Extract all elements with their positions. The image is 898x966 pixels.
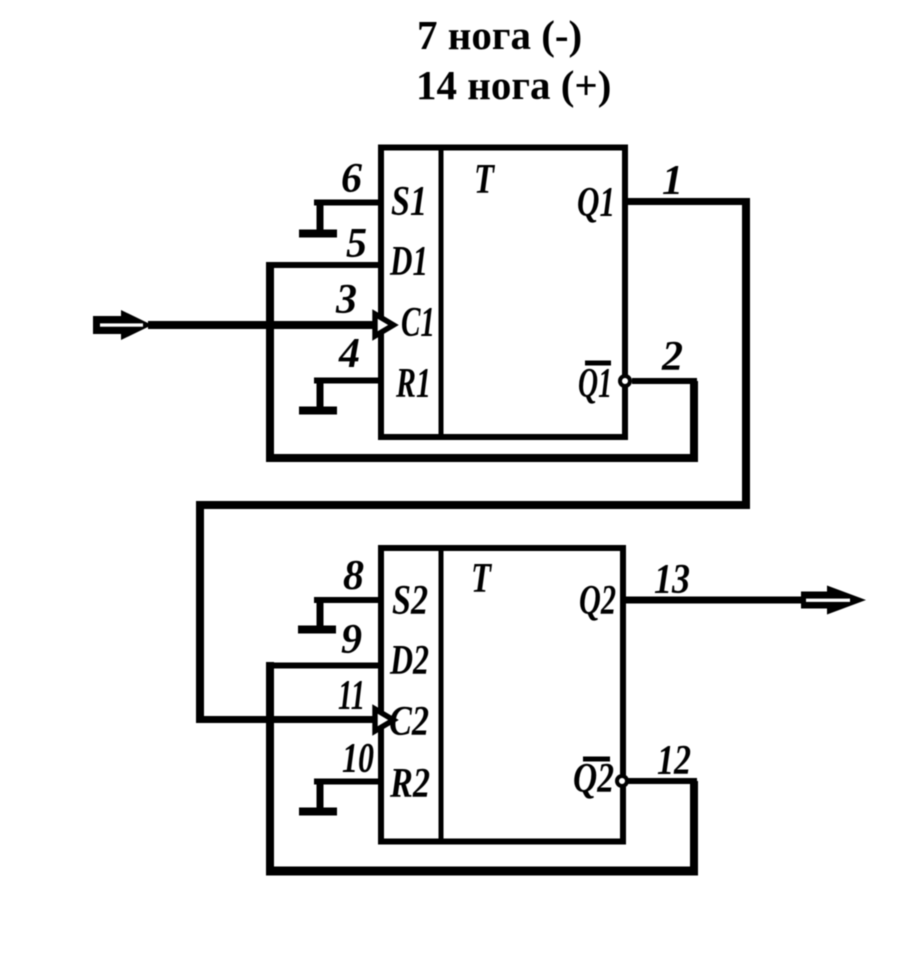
wire: Q2 output line — [622, 597, 812, 604]
svg-text:R1: R1 — [395, 361, 431, 407]
U2 pin label Q2-bar — [573, 756, 614, 802]
svg-text:3: 3 — [335, 277, 357, 323]
svg-text:12: 12 — [657, 738, 691, 784]
U2 pin label Q2 — [579, 578, 616, 624]
wire: Q1-bar feedback bottom horizontal — [266, 454, 698, 462]
pin number 12 — [657, 738, 691, 784]
svg-text:14 нога (+): 14 нога (+) — [416, 62, 611, 108]
U2 pin label C2 — [389, 699, 429, 745]
pin number 5 — [346, 221, 367, 267]
pin number 4 — [338, 331, 360, 377]
svg-text:8: 8 — [343, 553, 364, 599]
wire: interstage horizontal — [196, 501, 750, 509]
wire: Q2-bar feedback right vertical — [690, 781, 698, 875]
svg-text:13: 13 — [654, 557, 690, 603]
wire: R1 stub — [314, 378, 381, 384]
U1 pin label D1 — [389, 239, 428, 285]
svg-text:4: 4 — [338, 331, 360, 377]
wire: Q1-bar feedback right vertical — [690, 381, 698, 462]
wire: Q2-bar feedback bottom horizontal — [266, 867, 698, 876]
svg-text:S2: S2 — [392, 578, 428, 624]
wire: Q2-bar stub — [628, 778, 697, 784]
svg-text:S1: S1 — [391, 179, 427, 225]
svg-text:2: 2 — [661, 334, 683, 380]
inversion bubble Q1-bar — [620, 376, 630, 386]
wire: feedback left vertical to D2 — [266, 662, 274, 875]
flip-flop U1 body — [381, 147, 625, 437]
svg-text:C1: C1 — [401, 300, 435, 346]
U1 pin label R1 — [395, 361, 431, 407]
svg-text:T: T — [474, 157, 496, 203]
wire: D1 stub — [267, 262, 381, 268]
wire: Q1 stub to vertical — [625, 198, 750, 205]
pin number 13 — [654, 557, 690, 603]
svg-text:D1: D1 — [389, 239, 428, 285]
svg-text:6: 6 — [341, 156, 362, 202]
U1 pin label Q1-bar — [578, 361, 612, 407]
wire: Q1 right vertical down — [742, 198, 750, 509]
svg-text:11: 11 — [338, 673, 365, 719]
ground at S2 — [298, 599, 336, 630]
svg-text:5: 5 — [346, 221, 367, 267]
pin number 3 — [335, 277, 357, 323]
svg-text:Q2: Q2 — [573, 756, 614, 802]
svg-text:Q2: Q2 — [579, 578, 616, 624]
svg-text:10: 10 — [342, 736, 374, 782]
U2 pin label S2 — [392, 578, 428, 624]
ground at R1 — [299, 380, 337, 411]
svg-text:Q1: Q1 — [578, 361, 612, 407]
pin number 2 — [661, 334, 683, 380]
pin number 11 — [338, 673, 365, 719]
wire: feedback left vertical to D1 — [266, 262, 274, 462]
inversion bubble Q2-bar — [617, 776, 627, 786]
pin number 10 — [342, 736, 374, 782]
U2 pin label R2 — [389, 761, 430, 807]
clock triangle C2 — [375, 709, 394, 731]
wire: R2 stub — [314, 779, 381, 785]
clock triangle C1 — [375, 314, 394, 336]
svg-text:Q1: Q1 — [577, 180, 615, 226]
flip-flop U2 body — [381, 548, 623, 842]
U2 pin label D2 — [389, 638, 429, 684]
power note: 7 нога (-) — [417, 12, 582, 58]
svg-text:7 нога (-): 7 нога (-) — [417, 12, 582, 58]
svg-text:1: 1 — [662, 158, 683, 204]
U1 pin label Q1 — [577, 180, 615, 226]
wire: D2 stub — [267, 663, 381, 669]
wire: C2 input line — [196, 716, 378, 723]
wire: S1 stub — [314, 200, 381, 206]
pin number 6 — [341, 156, 362, 202]
svg-text:9: 9 — [341, 617, 362, 663]
wire: Q1-bar stub — [632, 378, 697, 384]
pin number 9 — [341, 617, 362, 663]
U1 pin label S1 — [391, 179, 427, 225]
svg-text:T: T — [471, 556, 493, 602]
input arrow — [93, 310, 152, 340]
pin number 1 — [662, 158, 683, 204]
svg-text:D2: D2 — [389, 638, 429, 684]
wire: S2 stub — [314, 597, 381, 603]
output arrow — [801, 586, 866, 615]
power note: 14 нога (+) — [416, 62, 611, 108]
wire: interstage left vertical — [196, 501, 204, 723]
svg-text:R2: R2 — [389, 761, 430, 807]
wire: input line to C1 — [148, 321, 378, 329]
ground at S1 — [299, 202, 337, 234]
ground at R2 — [299, 781, 337, 812]
U1 pin label C1 — [401, 300, 435, 346]
pin number 8 — [343, 553, 364, 599]
